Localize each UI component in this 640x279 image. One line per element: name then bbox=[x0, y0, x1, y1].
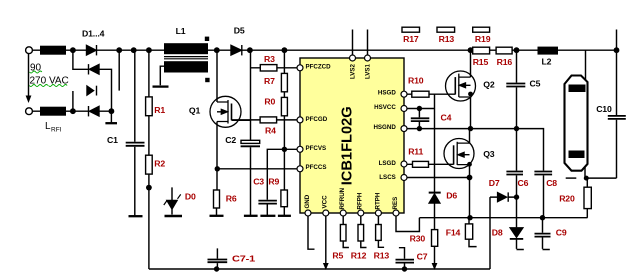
svg-text:D8: D8 bbox=[492, 227, 503, 237]
svg-text:R17: R17 bbox=[403, 34, 419, 44]
svg-text:LSGD: LSGD bbox=[379, 160, 397, 167]
svg-text:R19: R19 bbox=[475, 34, 491, 44]
svg-text:R10: R10 bbox=[408, 76, 424, 86]
svg-text:D5: D5 bbox=[234, 25, 245, 35]
svg-text:D1...4: D1...4 bbox=[82, 28, 105, 38]
svg-text:L2: L2 bbox=[542, 57, 552, 67]
svg-text:HSVCC: HSVCC bbox=[374, 104, 396, 111]
svg-text:RFI: RFI bbox=[51, 127, 62, 134]
svg-text:R11: R11 bbox=[408, 147, 423, 157]
svg-text:LVS2: LVS2 bbox=[350, 63, 357, 79]
svg-text:PFCCS: PFCCS bbox=[306, 164, 327, 171]
svg-text:VCC: VCC bbox=[322, 195, 329, 209]
svg-text:C4: C4 bbox=[441, 112, 452, 122]
svg-text:R4: R4 bbox=[265, 126, 276, 136]
svg-text:ICB1FL02G: ICB1FL02G bbox=[339, 106, 356, 185]
svg-text:GND: GND bbox=[304, 194, 311, 208]
svg-text:PFCZCD: PFCZCD bbox=[306, 64, 332, 71]
svg-text:C6: C6 bbox=[518, 178, 529, 188]
svg-text:D6: D6 bbox=[446, 190, 457, 200]
svg-text:R1: R1 bbox=[154, 105, 165, 115]
svg-text:R5: R5 bbox=[332, 251, 343, 261]
svg-text:C9: C9 bbox=[556, 227, 567, 237]
svg-text:RFPH: RFPH bbox=[357, 192, 364, 209]
svg-text:L1: L1 bbox=[176, 26, 186, 36]
svg-text:R6: R6 bbox=[226, 193, 237, 203]
svg-text:R12: R12 bbox=[351, 251, 367, 261]
svg-text:D7: D7 bbox=[489, 178, 500, 188]
svg-text:RTPH: RTPH bbox=[374, 192, 381, 209]
svg-text:R9: R9 bbox=[268, 176, 279, 186]
svg-text:R0: R0 bbox=[264, 97, 275, 107]
svg-text:C3: C3 bbox=[253, 176, 264, 186]
svg-text:HSGD: HSGD bbox=[378, 89, 396, 96]
svg-text:LSCS: LSCS bbox=[379, 174, 396, 181]
svg-text:R13: R13 bbox=[439, 34, 455, 44]
svg-text:HSGND: HSGND bbox=[373, 124, 396, 131]
svg-text:Q3: Q3 bbox=[483, 149, 495, 159]
svg-text:R13: R13 bbox=[374, 251, 390, 261]
svg-text:C8: C8 bbox=[546, 178, 557, 188]
svg-text:PFCVS: PFCVS bbox=[306, 145, 327, 152]
svg-text:R2: R2 bbox=[154, 158, 165, 168]
svg-text:LVS1: LVS1 bbox=[365, 63, 372, 79]
svg-text:PFCGD: PFCGD bbox=[306, 116, 328, 123]
svg-text:C7: C7 bbox=[417, 251, 428, 261]
svg-text:R3: R3 bbox=[264, 54, 275, 64]
svg-text:R16: R16 bbox=[497, 57, 513, 67]
svg-text:C10: C10 bbox=[596, 104, 612, 114]
svg-text:C5: C5 bbox=[530, 78, 541, 88]
svg-text:R20: R20 bbox=[559, 194, 575, 204]
svg-text:Q1: Q1 bbox=[189, 106, 201, 116]
svg-text:RFRUN: RFRUN bbox=[339, 187, 346, 209]
svg-text:D0: D0 bbox=[185, 191, 196, 201]
svg-text:R30: R30 bbox=[410, 233, 426, 243]
svg-text:R7: R7 bbox=[264, 76, 275, 86]
svg-text:F14: F14 bbox=[446, 228, 461, 238]
svg-text:RES: RES bbox=[392, 197, 399, 210]
svg-text:C2: C2 bbox=[225, 135, 236, 145]
svg-text:Q2: Q2 bbox=[483, 80, 495, 90]
svg-text:R15: R15 bbox=[473, 57, 489, 67]
svg-text:C1: C1 bbox=[107, 135, 118, 145]
svg-text:C7-1: C7-1 bbox=[232, 253, 255, 263]
